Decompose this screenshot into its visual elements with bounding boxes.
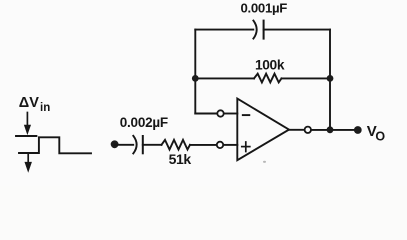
capacitor C2 0.002uF	[133, 136, 143, 154]
input terminal node	[111, 140, 119, 148]
wire to minus input	[195, 113, 216, 115]
junction node left of 100k	[192, 75, 199, 82]
label dVin	[19, 95, 50, 114]
op-amp plus sign	[242, 142, 250, 152]
wire pin to op-amp minus	[224, 113, 237, 115]
junction node right of 100k	[327, 75, 334, 82]
svg-text:ΔV: ΔV	[19, 95, 39, 111]
feedback top wire right	[264, 29, 330, 31]
minus input pin circle	[217, 110, 223, 116]
feedback left vertical wire	[194, 30, 196, 114]
op-amp minus sign	[243, 114, 250, 116]
feedback right vertical wire	[329, 30, 331, 130]
svg-text:100k: 100k	[255, 58, 285, 73]
feedback middle wire left	[195, 77, 254, 79]
resistor R2 51k	[162, 140, 191, 150]
wire C2 to R2	[143, 144, 162, 146]
input waveform reference level	[16, 135, 36, 137]
junction node feedback/output	[327, 126, 334, 133]
svg-text:in: in	[40, 102, 50, 114]
wire R2 to plus input	[190, 144, 216, 146]
output pin circle	[305, 127, 311, 133]
svg-text:51k: 51k	[169, 151, 192, 167]
feedback top wire left	[195, 29, 253, 31]
label VO	[367, 123, 386, 144]
input waveform pulse	[19, 137, 91, 153]
svg-text:O: O	[375, 130, 385, 144]
svg-text:0.001µF: 0.001µF	[241, 1, 288, 16]
wire pin to op-amp plus	[224, 144, 238, 146]
svg-text:0.002µF: 0.002µF	[120, 115, 168, 130]
op-amp U1	[237, 99, 289, 161]
resistor R1 100k	[254, 74, 282, 83]
plus input pin circle	[217, 142, 223, 148]
output wire	[312, 129, 358, 131]
input step arrow bottom	[25, 155, 32, 172]
feedback middle wire right	[282, 77, 331, 79]
wire input terminal to C2	[115, 144, 134, 146]
capacitor C1 0.001uF	[253, 21, 263, 39]
output terminal node	[354, 126, 362, 134]
wire apex to output pin	[289, 129, 304, 131]
input step arrow top	[24, 113, 30, 135]
print speck	[263, 161, 266, 163]
